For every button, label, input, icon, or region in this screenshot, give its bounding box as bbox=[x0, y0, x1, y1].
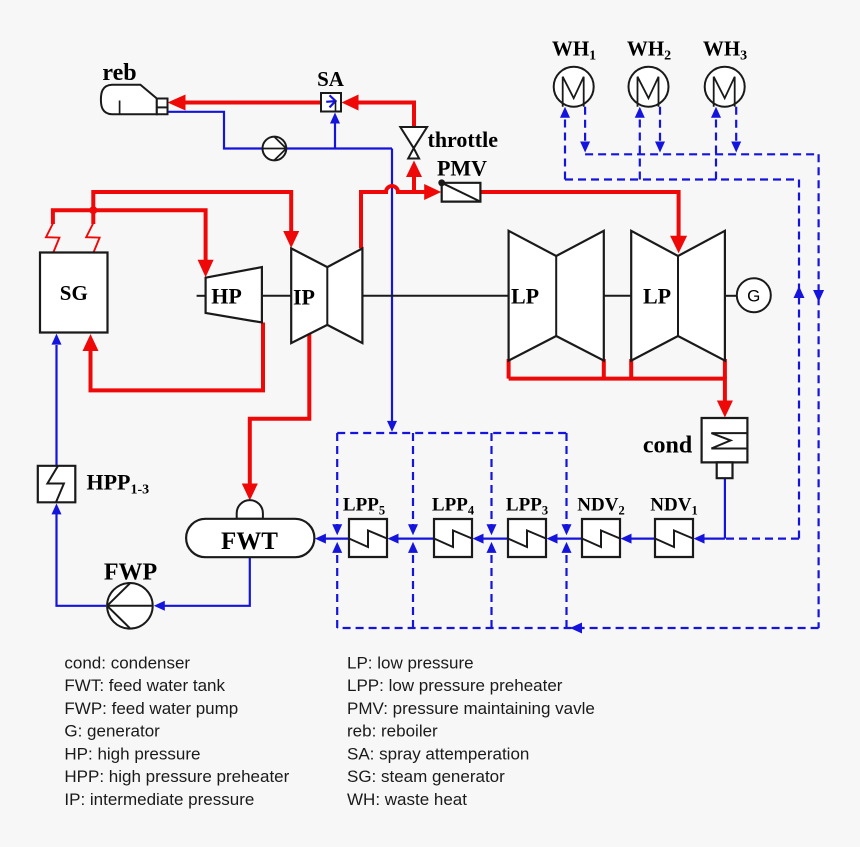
svg-text:G: generator: G: generator bbox=[64, 722, 160, 741]
svg-text:G: G bbox=[747, 286, 760, 305]
svg-text:FWP: FWP bbox=[104, 560, 157, 586]
svg-text:IP: intermediate pressure: IP: intermediate pressure bbox=[64, 790, 254, 809]
svg-text:WH: waste heat: WH: waste heat bbox=[347, 790, 467, 809]
svg-text:PMV: PMV bbox=[437, 156, 487, 181]
svg-text:LP: LP bbox=[643, 284, 671, 309]
svg-text:LPP3: LPP3 bbox=[506, 495, 548, 518]
svg-text:SA: spray attemperation: SA: spray attemperation bbox=[347, 744, 529, 763]
svg-text:FWT: FWT bbox=[221, 528, 278, 555]
svg-text:LP: LP bbox=[511, 284, 539, 309]
svg-text:NDV2: NDV2 bbox=[577, 495, 624, 518]
svg-text:NDV1: NDV1 bbox=[650, 495, 697, 518]
svg-text:SG: SG bbox=[60, 281, 88, 305]
svg-text:SG: steam generator: SG: steam generator bbox=[347, 767, 505, 786]
svg-text:FWT: feed water tank: FWT: feed water tank bbox=[64, 676, 225, 695]
svg-text:HP: HP bbox=[211, 283, 242, 308]
svg-text:HP: high pressure: HP: high pressure bbox=[64, 744, 200, 763]
svg-text:reb: reboiler: reb: reboiler bbox=[347, 722, 438, 741]
svg-text:PMV: pressure maintaining vavl: PMV: pressure maintaining vavle bbox=[347, 699, 595, 718]
svg-text:FWP: feed water pump: FWP: feed water pump bbox=[64, 699, 238, 718]
svg-text:throttle: throttle bbox=[428, 127, 499, 152]
svg-text:reb: reb bbox=[102, 60, 136, 86]
svg-text:LPP5: LPP5 bbox=[343, 495, 385, 518]
svg-text:SA: SA bbox=[317, 67, 345, 91]
svg-text:cond: cond bbox=[643, 433, 693, 459]
svg-text:cond: condenser: cond: condenser bbox=[64, 653, 190, 672]
svg-text:IP: IP bbox=[293, 285, 315, 310]
svg-text:LP: low pressure: LP: low pressure bbox=[347, 653, 474, 672]
svg-text:HPP: high pressure preheater: HPP: high pressure preheater bbox=[64, 767, 289, 786]
svg-text:LPP: low pressure preheater: LPP: low pressure preheater bbox=[347, 676, 563, 695]
